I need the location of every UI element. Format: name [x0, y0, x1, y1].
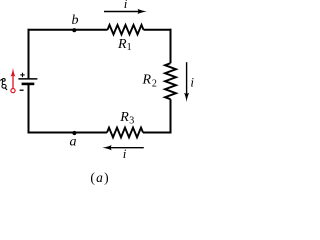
- svg-text:3: 3: [129, 116, 134, 127]
- node b: [72, 28, 76, 32]
- resistor R1: [108, 25, 144, 35]
- wire bottom-right segment: [143, 132, 172, 134]
- EMF script-E label: [0, 79, 7, 90]
- battery EMF source: short plate (-): [22, 83, 35, 86]
- svg-text:R: R: [119, 110, 129, 125]
- svg-text:R: R: [117, 37, 127, 52]
- svg-text:2: 2: [152, 79, 157, 90]
- svg-text:(a): (a): [90, 170, 108, 185]
- wire right upper segment: [170, 29, 172, 63]
- svg-text:1: 1: [127, 42, 132, 53]
- resistor R3: [107, 128, 143, 138]
- current arrow i (bottom, leftward): [102, 145, 143, 150]
- svg-text:R: R: [142, 72, 152, 87]
- battery minus sign: [20, 89, 24, 91]
- current arrow i (right, downward): [184, 62, 189, 102]
- current arrow i (top): [104, 9, 147, 14]
- wire left upper segment: [28, 29, 30, 79]
- wire left lower segment: [28, 84, 30, 134]
- wire top-right segment: [144, 29, 172, 31]
- R2 value label: [142, 72, 157, 89]
- R3 value label: [119, 110, 134, 127]
- R1 value label: [117, 37, 132, 53]
- svg-text:i: i: [190, 75, 194, 90]
- battery plus sign: [20, 73, 24, 77]
- svg-text:i: i: [124, 0, 128, 11]
- wire top-left segment: [28, 29, 108, 31]
- svg-text:a: a: [70, 135, 77, 150]
- EMF direction arrow (red, upward with circle tail): [11, 68, 16, 93]
- node a: [72, 131, 76, 135]
- resistor R2: [165, 63, 176, 99]
- battery EMF source: long plate (+): [18, 78, 37, 80]
- wire bottom-left segment: [28, 132, 108, 134]
- svg-text:b: b: [72, 13, 79, 28]
- svg-text:i: i: [123, 146, 127, 161]
- wire right lower segment: [170, 99, 172, 133]
